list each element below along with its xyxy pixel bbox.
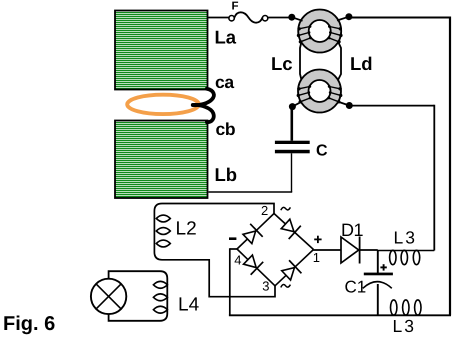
svg-text:Ld: Ld [350,53,373,74]
wire Ld right to inner vertical [349,105,434,107]
node dot bottom-right of Ld [346,102,353,109]
wire La to fuse [208,17,230,19]
wire C1 down to bottom rail [377,284,379,315]
wire bridge minus stub [230,248,237,250]
capacitor C [275,141,310,144]
wire Ld left down to capacitor C [290,107,293,141]
wire right edge vertical [449,17,451,316]
inductor L3 bottom [391,300,421,315]
wire D1 junction down to C1 [377,250,379,273]
node dot top-left of Lc [288,14,295,21]
svg-text:La: La [215,26,237,47]
svg-text:cb: cb [216,119,236,139]
rotor loop (orange ellipse) [127,95,199,114]
svg-text:F: F [232,1,239,13]
coil Lb (striped winding block) [115,121,208,199]
wire minus node down to bottom rail [229,248,231,315]
coil L2 loop and winding [154,204,275,297]
bridge diode bottom-left [242,253,264,275]
svg-text:1: 1 [313,250,320,265]
wire fuse to toroid Lc [268,17,292,19]
inductor L3 top [378,250,435,252]
svg-text:3: 3 [262,279,269,294]
toroid transformer Lc (top ring) [292,10,349,53]
wire bottom rail [229,314,451,316]
svg-text:L3: L3 [394,228,417,248]
svg-text:ca: ca [215,72,234,92]
svg-text:L4: L4 [178,295,200,316]
node dot bottom-left of Ld [289,103,296,110]
bridge diode top-left [241,224,262,246]
toroid transformer Ld (bottom ring) [292,70,349,113]
bridge diode top-right [279,217,300,239]
svg-text:2: 2 [261,203,268,218]
lamp and L4 loop [109,271,168,321]
wire inner vertical down to L3 [433,105,435,251]
svg-text:Lb: Lb [215,164,238,185]
svg-text:C: C [316,143,328,160]
wire C bottom down [291,153,293,192]
svg-text:L3: L3 [393,316,416,336]
twisted link ca-cb between La and Lb [193,89,214,105]
svg-text:Fig. 6: Fig. 6 [3,313,55,335]
wire C to Lb [209,191,293,193]
wire Lc to Ld right [338,42,341,81]
capacitor C1 [364,273,393,276]
fuse F [229,16,234,21]
coil La (striped winding block) [115,11,208,90]
svg-text:D1: D1 [341,220,363,240]
wire Lc to Ld left [300,42,302,81]
coil L4 winding [153,281,167,313]
svg-text:C1: C1 [345,277,367,296]
bridge diode bottom-right [280,260,301,282]
diode D1 [341,237,359,263]
wire plus node to D1 [314,249,378,251]
bridge rectifier frame [237,214,314,286]
node dot top-right of Lc [345,13,352,20]
svg-text:L2: L2 [176,218,197,239]
capacitor C1 polarity plus [380,264,386,270]
svg-text:Lc: Lc [271,53,293,74]
svg-text:4: 4 [234,253,241,268]
wire top rail to right edge [349,17,451,19]
lamp [91,279,126,314]
